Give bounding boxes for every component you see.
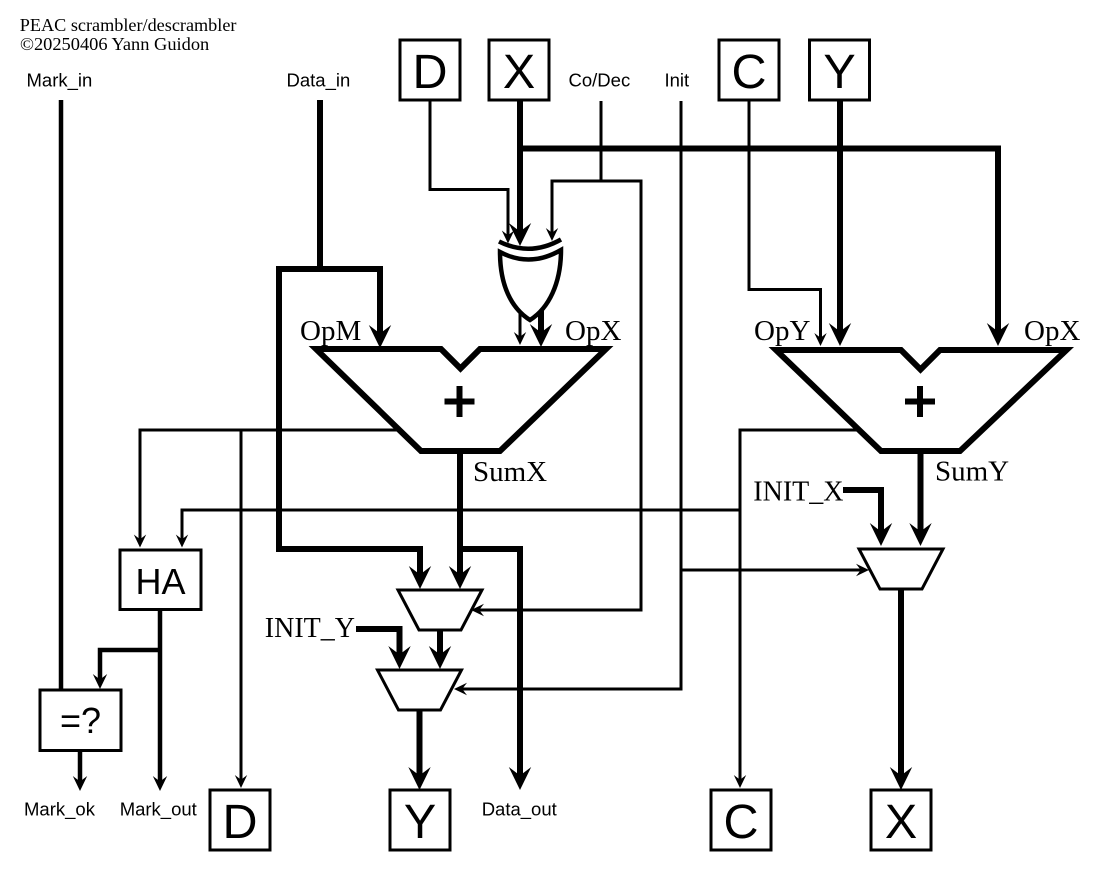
svg-text:=?: =? — [60, 700, 101, 741]
svg-text:X: X — [885, 795, 917, 849]
svg-text:Mark_in: Mark_in — [27, 70, 93, 92]
svg-text:OpX: OpX — [565, 315, 621, 347]
svg-text:X: X — [503, 45, 535, 99]
svg-text:Y: Y — [404, 795, 436, 849]
svg-text:Init: Init — [665, 70, 690, 91]
svg-text:PEAC scrambler/descrambler: PEAC scrambler/descrambler — [20, 15, 237, 35]
svg-text:D: D — [222, 795, 257, 849]
svg-text:C: C — [731, 45, 766, 99]
svg-text:Data_out: Data_out — [482, 799, 557, 821]
svg-text:Data_in: Data_in — [287, 70, 351, 92]
svg-text:Co/Dec: Co/Dec — [569, 70, 631, 91]
svg-text:Mark_out: Mark_out — [120, 799, 197, 821]
svg-text:SumX: SumX — [473, 456, 547, 488]
svg-text:©20250406 Yann Guidon: ©20250406 Yann Guidon — [20, 34, 209, 54]
svg-text:C: C — [723, 795, 758, 849]
svg-text:Y: Y — [823, 45, 855, 99]
svg-text:INIT_X: INIT_X — [753, 477, 843, 508]
svg-text:HA: HA — [135, 561, 185, 602]
svg-text:OpM: OpM — [300, 315, 361, 347]
svg-text:OpY: OpY — [754, 315, 810, 347]
svg-text:D: D — [412, 45, 447, 99]
svg-text:Mark_ok: Mark_ok — [24, 799, 96, 821]
svg-text:INIT_Y: INIT_Y — [265, 613, 355, 644]
svg-text:SumY: SumY — [935, 456, 1009, 488]
svg-text:OpX: OpX — [1024, 315, 1080, 347]
